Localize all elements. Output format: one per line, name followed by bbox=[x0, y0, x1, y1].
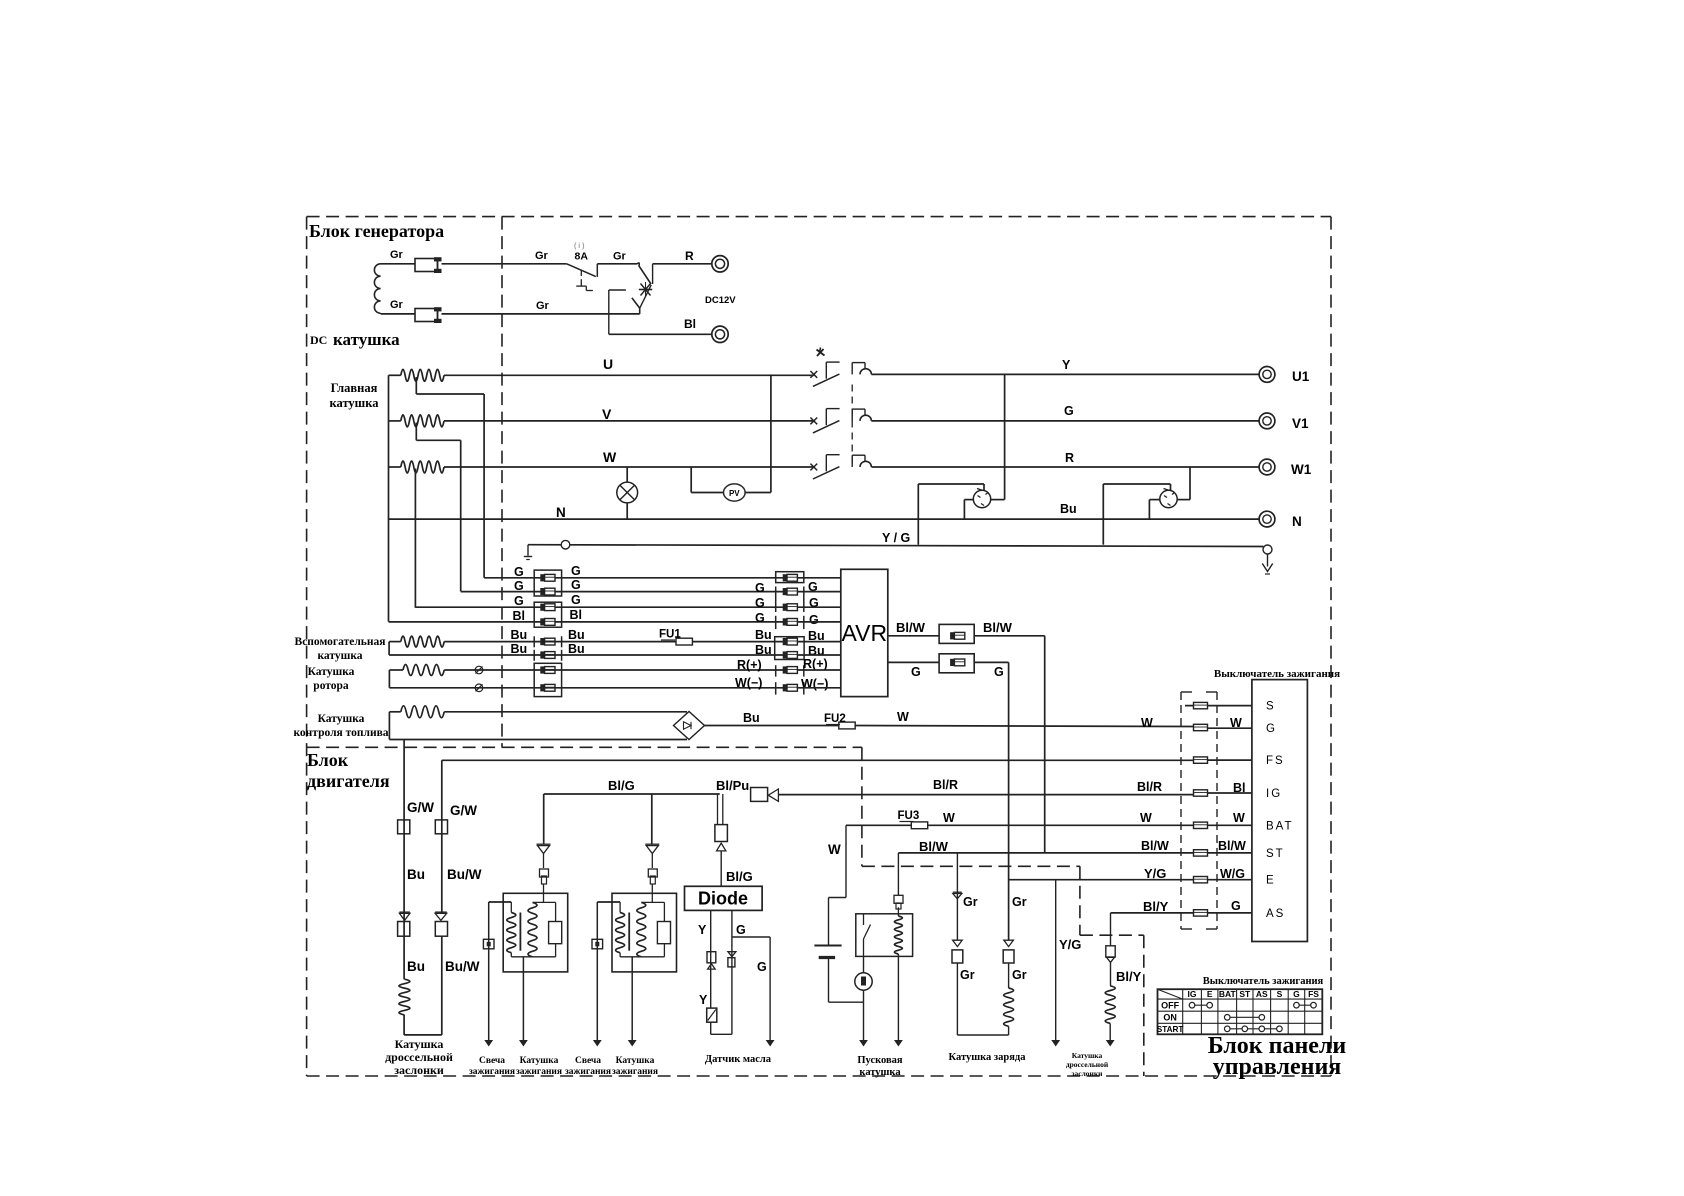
fuel control coil winding bbox=[389, 711, 400, 713]
svg-text:контроля топлива: контроля топлива bbox=[293, 727, 388, 739]
svg-text:Gr: Gr bbox=[960, 968, 975, 982]
svg-text:Y/G: Y/G bbox=[1144, 866, 1166, 881]
ignition switch pin row FS bbox=[1194, 757, 1208, 763]
ignition switch pin row S bbox=[1185, 705, 1252, 707]
wire R output bbox=[653, 263, 712, 265]
svg-text:G: G bbox=[514, 579, 524, 593]
svg-text:катушка: катушка bbox=[317, 650, 362, 662]
svg-text:G: G bbox=[514, 565, 524, 579]
svg-text:катушка: катушка bbox=[859, 1067, 901, 1078]
svg-text:Bl/W: Bl/W bbox=[896, 620, 926, 635]
star point bus bbox=[388, 375, 390, 621]
ignition switch connector housing dashed bbox=[1180, 692, 1182, 929]
svg-text:W: W bbox=[828, 842, 841, 857]
svg-text:Bl/G: Bl/G bbox=[608, 778, 635, 793]
svg-text:G: G bbox=[571, 564, 581, 578]
svg-text:Bu: Bu bbox=[755, 628, 772, 642]
socket S2 bbox=[1160, 490, 1177, 507]
ignition module box bbox=[503, 893, 568, 972]
right connector housing bbox=[776, 572, 804, 583]
svg-text:G: G bbox=[514, 594, 524, 608]
slip ring symbols bbox=[475, 666, 483, 674]
svg-text:FS: FS bbox=[1266, 755, 1285, 767]
wire rotor row8 W- bbox=[389, 687, 785, 689]
svg-text:катушка: катушка bbox=[333, 330, 400, 349]
svg-text:Bu: Bu bbox=[808, 644, 825, 658]
wire Bl/W to vertical link bbox=[974, 635, 1044, 637]
svg-text:Y: Y bbox=[1062, 358, 1071, 372]
svg-text:G: G bbox=[1266, 723, 1277, 735]
module internal links bbox=[641, 901, 664, 903]
svg-text:заслонки: заслонки bbox=[394, 1063, 444, 1077]
svg-text:Y/G: Y/G bbox=[1059, 937, 1081, 952]
svg-text:S: S bbox=[1277, 989, 1283, 999]
svg-text:Bl/W: Bl/W bbox=[1218, 839, 1246, 853]
svg-text:Gr: Gr bbox=[1012, 895, 1027, 909]
svg-text:Bl: Bl bbox=[684, 317, 696, 331]
svg-text:V1: V1 bbox=[1292, 416, 1309, 431]
svg-text:Датчик масла: Датчик масла bbox=[705, 1054, 772, 1065]
charge coil winding bbox=[1008, 963, 1010, 988]
wire Bl/Y row AS bbox=[1111, 912, 1195, 914]
throttle coil right winding bbox=[1105, 986, 1115, 1024]
inner dashed vertical separator of generator block bbox=[501, 217, 503, 748]
breaker contact U bbox=[810, 371, 817, 378]
throttle coil winding bbox=[399, 979, 410, 1015]
svg-text:Gr: Gr bbox=[390, 249, 404, 261]
wire G to terminal V1 bbox=[871, 420, 1258, 422]
svg-text:W: W bbox=[603, 449, 617, 465]
core bar bbox=[628, 913, 630, 951]
breaker 8A bbox=[567, 264, 596, 277]
svg-text:Gr: Gr bbox=[963, 895, 978, 909]
rotor coil winding bbox=[389, 669, 403, 671]
svg-text:W1: W1 bbox=[1291, 462, 1312, 477]
V phase tap wire to connector row2 bbox=[415, 423, 417, 441]
svg-text:G/W: G/W bbox=[407, 800, 434, 815]
svg-text:U: U bbox=[603, 356, 613, 372]
svg-text:Вспомогательная: Вспомогательная bbox=[295, 636, 386, 648]
fuse FU2 bbox=[839, 722, 855, 729]
spark plug wire bbox=[488, 902, 490, 1040]
svg-text:Катушка: Катушка bbox=[318, 713, 365, 725]
ignition switch pin row G bbox=[1207, 727, 1252, 729]
svg-text:G: G bbox=[1293, 989, 1300, 999]
svg-text:W: W bbox=[897, 710, 909, 724]
fuse FU3 bbox=[911, 822, 927, 829]
svg-text:G: G bbox=[571, 578, 581, 592]
svg-text:Bu: Bu bbox=[511, 642, 528, 656]
terminal V1 bbox=[1259, 413, 1275, 429]
svg-text:R: R bbox=[1065, 451, 1074, 465]
svg-text:Bu: Bu bbox=[407, 867, 425, 882]
svg-text:Bu: Bu bbox=[568, 628, 585, 642]
spark plug wire bbox=[596, 902, 598, 1040]
oil pressure switch bbox=[707, 1008, 717, 1022]
svg-text:R(+): R(+) bbox=[803, 657, 828, 671]
secondary winding bbox=[637, 902, 646, 956]
svg-text:Главная: Главная bbox=[331, 381, 378, 395]
svg-text:Bu/W: Bu/W bbox=[447, 867, 482, 882]
oil sensor G branch bbox=[731, 910, 733, 1034]
svg-text:Bu: Bu bbox=[407, 959, 425, 974]
svg-text:ST: ST bbox=[1266, 848, 1285, 860]
svg-text:Bl/Pu: Bl/Pu bbox=[716, 778, 749, 793]
wire FS line from x441.8 bbox=[442, 759, 1194, 761]
wire fuel coil bottom line bbox=[389, 739, 687, 741]
outer dashed border of diagram bbox=[307, 216, 1331, 218]
svg-text:U1: U1 bbox=[1292, 369, 1310, 384]
wire bus row2 G bbox=[461, 591, 785, 593]
left connector housing boxes bbox=[534, 570, 561, 596]
svg-text:W(−): W(−) bbox=[801, 677, 828, 691]
svg-text:Bu: Bu bbox=[511, 628, 528, 642]
lamp between W and N bbox=[626, 467, 628, 482]
diode above module bbox=[645, 843, 659, 845]
Diode box bbox=[685, 886, 763, 910]
wire V line bbox=[444, 420, 814, 422]
svg-text:Bl: Bl bbox=[513, 609, 526, 623]
svg-text:AS: AS bbox=[1266, 908, 1285, 920]
ground hook at Y/G left end bbox=[527, 545, 529, 556]
svg-text:зажигания: зажигания bbox=[516, 1067, 562, 1077]
svg-text:G: G bbox=[736, 923, 746, 937]
svg-text:IG: IG bbox=[1266, 788, 1282, 800]
svg-text:зажигания: зажигания bbox=[469, 1067, 515, 1077]
svg-text:Gr: Gr bbox=[613, 251, 627, 263]
relay coil top pin bbox=[897, 907, 899, 916]
svg-text:Gr: Gr bbox=[536, 300, 550, 312]
svg-text:R: R bbox=[685, 249, 694, 263]
wire Bl/G horizontal bbox=[544, 793, 720, 795]
engine block dashed boundary bbox=[307, 746, 862, 748]
diode diamond bbox=[674, 712, 705, 740]
relay box bbox=[856, 914, 913, 957]
diode mid branch2 bbox=[1004, 940, 1014, 946]
svg-text:DC12V: DC12V bbox=[705, 295, 736, 306]
wire throttle U bottom bbox=[403, 1015, 405, 1035]
svg-text:Bl: Bl bbox=[1233, 781, 1246, 795]
svg-text:Свеча: Свеча bbox=[575, 1056, 601, 1066]
breaker contact W bbox=[810, 464, 817, 471]
svg-text:Свеча: Свеча bbox=[479, 1056, 505, 1066]
svg-text:W(−): W(−) bbox=[735, 676, 762, 690]
svg-text:Bu: Bu bbox=[568, 642, 585, 656]
battery symbol bbox=[814, 945, 841, 947]
ignition switch pin row ST bbox=[1194, 850, 1208, 856]
Bl/Y branch down bbox=[1110, 913, 1112, 946]
wire FU2 to ignition G row bbox=[855, 726, 1194, 727]
svg-text:FS: FS bbox=[1308, 989, 1319, 999]
wire aux row5 Bu bbox=[444, 641, 785, 643]
winding W phase bbox=[389, 466, 401, 468]
socket S2 wires bbox=[1102, 484, 1104, 545]
svg-text:заслонки: заслонки bbox=[1071, 1069, 1103, 1078]
svg-text:FU1: FU1 bbox=[659, 629, 681, 641]
breaker trip marker bbox=[817, 350, 825, 356]
wire drop to ignition module 1 bbox=[543, 794, 545, 844]
svg-text:OFF: OFF bbox=[1161, 1000, 1179, 1010]
svg-text:G: G bbox=[809, 613, 819, 627]
svg-text:R(+): R(+) bbox=[737, 658, 762, 672]
svg-text:G: G bbox=[755, 581, 765, 595]
ignition switch pin row BAT bbox=[1194, 822, 1208, 828]
charge coil branch 1 from Bl/W bbox=[956, 853, 958, 940]
svg-text:G: G bbox=[994, 665, 1004, 679]
winding V phase bbox=[389, 420, 401, 422]
svg-text:Bu: Bu bbox=[1060, 502, 1077, 516]
svg-text:AS: AS bbox=[1256, 989, 1268, 999]
connector rect on Bu/W branch bbox=[435, 820, 447, 834]
wire Bl/W ST line bbox=[898, 852, 1194, 854]
auxiliary coil winding bbox=[389, 641, 401, 643]
svg-text:FU3: FU3 bbox=[898, 810, 920, 822]
svg-text:Bl/W: Bl/W bbox=[1141, 839, 1169, 853]
terminal W1 bbox=[1259, 459, 1275, 475]
fuel injector nozzle bbox=[751, 788, 768, 802]
svg-text:ротора: ротора bbox=[313, 680, 349, 692]
wire Y/G line bbox=[528, 545, 1263, 547]
relay switch blade bbox=[863, 914, 865, 925]
wire U line bbox=[444, 374, 814, 376]
svg-text:Bl/Y: Bl/Y bbox=[1143, 899, 1169, 914]
svg-text:W: W bbox=[1230, 716, 1242, 730]
winding U phase bbox=[389, 374, 401, 376]
svg-text:Bl/G: Bl/G bbox=[726, 869, 753, 884]
svg-text:8A: 8A bbox=[575, 251, 589, 263]
wire drop to ignition module 2 bbox=[651, 794, 653, 844]
node circle on Y/G bbox=[561, 540, 570, 549]
svg-text:N: N bbox=[556, 505, 566, 520]
svg-text:Катушка: Катушка bbox=[616, 1056, 655, 1066]
svg-text:Пусковая: Пусковая bbox=[857, 1055, 903, 1066]
svg-text:BAT: BAT bbox=[1266, 820, 1294, 832]
svg-text:PV: PV bbox=[729, 489, 740, 498]
wire DC coil bottom to plug P2 bbox=[381, 313, 415, 315]
wire Bl output bbox=[609, 333, 712, 335]
svg-text:N: N bbox=[1292, 514, 1302, 529]
svg-text:IG: IG bbox=[1188, 989, 1197, 999]
svg-text:Y: Y bbox=[699, 993, 708, 1007]
svg-text:G/W: G/W bbox=[450, 803, 477, 818]
diode on Bu/W branch bbox=[435, 911, 447, 913]
svg-text:BAT: BAT bbox=[1219, 989, 1237, 999]
svg-text:ON: ON bbox=[1163, 1012, 1177, 1022]
secondary winding bbox=[528, 902, 537, 956]
wire bus row3 G bbox=[415, 606, 785, 608]
wire breaker to regulator bbox=[597, 263, 637, 265]
ignition switch pin row AS bbox=[1194, 910, 1208, 916]
ignition module box bbox=[612, 893, 677, 972]
svg-text:G: G bbox=[755, 596, 765, 610]
svg-text:Катушка: Катушка bbox=[520, 1056, 559, 1066]
breaker mechanical link dashed bbox=[851, 385, 853, 467]
svg-text:W/G: W/G bbox=[1220, 867, 1245, 881]
charge coil bottom link bbox=[957, 1034, 1008, 1036]
Bl/W inline connector bbox=[939, 624, 974, 643]
svg-text:S: S bbox=[1266, 701, 1276, 713]
svg-text:W: W bbox=[943, 811, 955, 825]
oil sensor feed connector bbox=[717, 794, 719, 825]
svg-text:Катушка: Катушка bbox=[1072, 1051, 1103, 1060]
connector rect on Bu branch bbox=[398, 820, 410, 834]
diode on Bu branch bbox=[399, 911, 410, 913]
svg-text:FU2: FU2 bbox=[824, 713, 846, 725]
terminal R bbox=[712, 256, 728, 272]
DC coil inductor bbox=[374, 264, 380, 314]
wire W from FU3 corner to battery bbox=[845, 825, 847, 897]
fuse FU1 bbox=[676, 638, 692, 645]
svg-text:ST: ST bbox=[1239, 989, 1251, 999]
terminal N bbox=[1259, 511, 1275, 527]
ignition switch pin row E bbox=[1194, 877, 1208, 883]
svg-text:Блок генератора: Блок генератора bbox=[309, 221, 444, 241]
wire W line bbox=[444, 466, 814, 468]
svg-text:Bu: Bu bbox=[743, 711, 760, 725]
wire fuel coil top to diode diamond bbox=[444, 711, 687, 713]
wire diamond to FU2 bbox=[705, 725, 839, 727]
plug connector P2 bbox=[415, 309, 438, 322]
ignition switch box bbox=[1252, 680, 1308, 942]
primary winding bbox=[489, 901, 512, 903]
svg-text:G: G bbox=[571, 593, 581, 607]
plug connector P1 bbox=[415, 259, 438, 272]
svg-text:W: W bbox=[1140, 811, 1152, 825]
wire Bl/R line to IG pin bbox=[778, 794, 1194, 796]
AVR box bbox=[841, 569, 888, 696]
socket S1 bbox=[973, 490, 990, 507]
svg-text:G: G bbox=[1064, 404, 1074, 418]
ignition switch pin row IG bbox=[1194, 790, 1208, 796]
svg-text:Bu: Bu bbox=[755, 643, 772, 657]
svg-text:дроссельной: дроссельной bbox=[1066, 1060, 1109, 1069]
wire BAT W line bbox=[846, 824, 912, 826]
svg-text:Gr: Gr bbox=[390, 299, 404, 311]
svg-text:Катушка: Катушка bbox=[395, 1037, 444, 1051]
svg-text:G: G bbox=[757, 960, 767, 974]
switch table grid bbox=[1158, 989, 1323, 1034]
breaker contact V bbox=[810, 418, 817, 425]
diode top branch1 bbox=[953, 891, 962, 893]
wire plug P2 to regulator bbox=[442, 313, 640, 315]
svg-text:Выключатель зажигания: Выключатель зажигания bbox=[1214, 668, 1340, 680]
svg-text:катушка: катушка bbox=[330, 396, 380, 410]
regulator lower arm bbox=[640, 285, 652, 308]
D meter circle bbox=[855, 973, 872, 990]
terminal Bl bbox=[712, 326, 728, 342]
left connector pins bbox=[545, 574, 555, 581]
wire bus row4 Bl bbox=[389, 621, 786, 623]
svg-text:Gr: Gr bbox=[535, 250, 549, 262]
svg-text:Блок: Блок bbox=[307, 750, 349, 770]
wire fuel bottom branch down (Bu) bbox=[403, 740, 405, 980]
svg-text:Y / G: Y / G bbox=[882, 531, 910, 545]
svg-text:зажигания: зажигания bbox=[612, 1067, 658, 1077]
relay coil bbox=[894, 916, 902, 954]
right connector pins bbox=[787, 574, 797, 581]
svg-text:Bl/Y: Bl/Y bbox=[1116, 969, 1142, 984]
wire aux row6 Bu bbox=[389, 654, 785, 656]
module top pin bbox=[651, 884, 653, 902]
wire bus row1 G bbox=[484, 577, 785, 579]
socket S1 wires bbox=[917, 484, 919, 545]
star mark in regulator bbox=[639, 289, 652, 291]
wire Bl/W from AVR bbox=[888, 635, 939, 637]
svg-text:E: E bbox=[1266, 875, 1276, 887]
module top pin bbox=[543, 884, 545, 902]
svg-text:G: G bbox=[755, 611, 765, 625]
svg-text:Выключатель зажигания: Выключатель зажигания bbox=[1203, 976, 1324, 987]
regulator/transistor symbol bbox=[637, 263, 651, 284]
primary winding bbox=[597, 901, 620, 903]
oil sensor Y branch bbox=[710, 910, 712, 1008]
secondary output to ground bbox=[631, 957, 633, 1040]
svg-text:Diode: Diode bbox=[698, 889, 748, 909]
svg-text:дроссельной: дроссельной bbox=[385, 1050, 453, 1064]
wire rotor row7 R+ bbox=[444, 669, 785, 671]
wire G from AVR bbox=[888, 661, 939, 663]
svg-text:зажигания: зажигания bbox=[565, 1067, 611, 1077]
core bar bbox=[519, 913, 521, 951]
spark plug pin bbox=[592, 939, 603, 949]
G inline connector bbox=[939, 654, 974, 673]
ground at right end of Y/G bbox=[1263, 545, 1272, 554]
svg-text:Bl/R: Bl/R bbox=[933, 778, 958, 792]
svg-text:Gr: Gr bbox=[1012, 968, 1027, 982]
secondary output to ground bbox=[522, 957, 524, 1040]
wire G to charge coil branch bbox=[974, 661, 1008, 663]
svg-text:Bl/W: Bl/W bbox=[919, 839, 949, 854]
svg-text:START: START bbox=[1157, 1025, 1184, 1034]
svg-text:Bl/R: Bl/R bbox=[1137, 780, 1162, 794]
diode above module bbox=[537, 843, 551, 845]
switch table ON row marks bbox=[1227, 1016, 1262, 1018]
svg-text:V: V bbox=[602, 406, 612, 422]
svg-text:DC: DC bbox=[310, 333, 327, 347]
svg-text:Катушка заряда: Катушка заряда bbox=[949, 1052, 1027, 1063]
wire Y to terminal U1 bbox=[871, 373, 1258, 375]
switch table START row marks bbox=[1227, 1028, 1279, 1030]
relay grounds bbox=[863, 956, 865, 1040]
svg-text:AVR: AVR bbox=[842, 620, 888, 646]
svg-text:W: W bbox=[1141, 716, 1153, 730]
terminal U1 bbox=[1259, 367, 1275, 383]
svg-text:Bl/W: Bl/W bbox=[983, 620, 1013, 635]
svg-text:E: E bbox=[1207, 989, 1213, 999]
svg-text:Bu/W: Bu/W bbox=[445, 959, 480, 974]
oil sensor G tap to ground bbox=[732, 936, 770, 938]
svg-text:Катушка: Катушка bbox=[308, 666, 355, 678]
voltmeter PV loop bbox=[690, 467, 692, 493]
wire plug P1 to breaker bbox=[442, 263, 567, 265]
diode mid branch1 bbox=[953, 940, 963, 946]
wire DC coil top to plug bbox=[381, 263, 415, 265]
svg-text:G: G bbox=[1231, 899, 1241, 913]
wire Y/G row E bbox=[1009, 879, 1194, 881]
W phase tap wire to connector row3 bbox=[414, 469, 416, 608]
svg-text:управления: управления bbox=[1213, 1054, 1342, 1080]
svg-text:двигателя: двигателя bbox=[307, 771, 390, 791]
U phase tap wire to connector row1 bbox=[415, 377, 417, 394]
Y/G branch to throttle return bbox=[1055, 880, 1057, 1040]
wire N line bbox=[389, 518, 1259, 520]
svg-text:Bl: Bl bbox=[570, 608, 583, 622]
switch table OFF row marks bbox=[1192, 1004, 1210, 1006]
wires right connector to AVR bbox=[798, 577, 841, 579]
svg-text:W: W bbox=[1233, 811, 1245, 825]
wire R to terminal W1 bbox=[871, 466, 1258, 468]
module internal links bbox=[533, 901, 556, 903]
